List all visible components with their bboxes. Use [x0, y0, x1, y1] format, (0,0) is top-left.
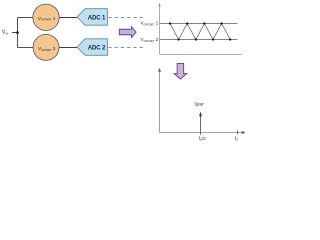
- svg-text:VOFFSET 2: VOFFSET 2: [141, 37, 159, 43]
- svg-text:Spur: Spur: [194, 101, 204, 106]
- svg-text:fS/2: fS/2: [199, 136, 207, 142]
- svg-text:fS: fS: [235, 136, 238, 142]
- svg-text:VIN: VIN: [2, 30, 8, 36]
- svg-text:ADC 1: ADC 1: [88, 14, 106, 21]
- svg-text:ADC 2: ADC 2: [88, 45, 106, 52]
- svg-text:VOFFSET 1: VOFFSET 1: [141, 21, 159, 27]
